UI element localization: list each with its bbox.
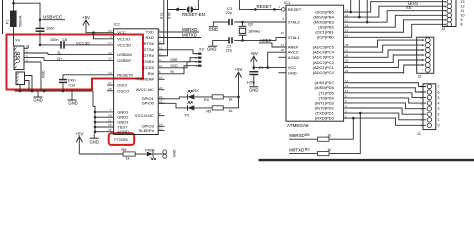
wire IC1 GND stub (279, 72, 287, 74)
wire DTR# up to RESET-EN (158, 0, 167, 56)
svg-text:DCD: DCD (171, 64, 179, 68)
IC1 RESET pin bubble (282, 8, 286, 12)
svg-text:RI#: RI# (148, 71, 155, 76)
svg-text:SLEEP#: SLEEP# (139, 128, 155, 133)
svg-text:C1: C1 (259, 66, 264, 70)
svg-text:X3: X3 (199, 46, 204, 51)
svg-text:19: 19 (108, 71, 112, 75)
schematic frame border left (2, 0, 4, 34)
svg-text:(RXD)PD0: (RXD)PD0 (315, 116, 335, 121)
+5V supply symbol for PWR LED (76, 137, 82, 142)
svg-text:C10: C10 (69, 84, 76, 88)
svg-text:0: 0 (438, 124, 440, 128)
svg-text:7: 7 (438, 85, 440, 89)
svg-text:VCC: VCC (117, 30, 126, 35)
svg-text:AGND: AGND (117, 129, 129, 134)
svg-text:+5V: +5V (235, 67, 243, 72)
net M8RXD from IC2 TXD (158, 31, 199, 33)
X4 pin 3 D+ (24, 57, 44, 59)
svg-text:+5V: +5V (75, 132, 83, 137)
svg-text:+5V: +5V (82, 15, 90, 20)
wire PWR LED to pads (154, 153, 163, 155)
wire ground bus from USB shield down to IC2 ground bus (92, 91, 94, 107)
wire fuse F1 to X4 pin (13, 27, 15, 46)
svg-text:GND: GND (42, 70, 46, 78)
PWR LED emission arrows (151, 157, 153, 159)
svg-text:10: 10 (281, 31, 285, 35)
wire IC1 PB5 to J3 (350, 2, 446, 12)
wire IC2 DSR# to X3 pad2 (165, 58, 199, 62)
svg-text:13: 13 (461, 0, 465, 4)
svg-text:PWR: PWR (145, 147, 154, 152)
svg-text:12: 12 (461, 5, 465, 9)
+5V supply symbol near IC1 (251, 56, 257, 61)
wire IC1 PC2 to J2 (350, 55, 424, 62)
svg-text:RESET-EN: RESET-EN (182, 12, 205, 17)
svg-text:Q2: Q2 (248, 21, 253, 26)
svg-text:M8RXD: M8RXD (289, 133, 304, 138)
wire D- from X4 to IC2 USBDM pin 16 (48, 53, 114, 55)
svg-text:F1: F1 (6, 20, 10, 24)
svg-text:9: 9 (461, 18, 463, 22)
svg-text:XTAL2: XTAL2 (288, 20, 301, 25)
wire XTAL1 from crystal to IC1 (241, 39, 244, 42)
svg-text:DSR: DSR (171, 58, 179, 62)
svg-text:5: 5 (438, 96, 440, 100)
wire R8 to IC1 PD0 (329, 118, 353, 139)
pads after PWR LED (163, 150, 167, 154)
ground symbol under C10 (71, 91, 73, 100)
svg-text:GPIO0: GPIO0 (142, 101, 155, 106)
svg-text:1k: 1k (228, 109, 232, 113)
svg-text:(ADC0)PC0: (ADC0)PC0 (313, 70, 335, 75)
net RESET from top edge (239, 0, 281, 9)
wire X4 GND pin down to ground bus (40, 62, 42, 91)
svg-text:PWREN#: PWREN# (137, 77, 155, 82)
net M8TXD from IC2 RXD (158, 37, 201, 39)
svg-text:TX: TX (184, 113, 189, 118)
svg-text:XTAL1: XTAL1 (288, 35, 301, 40)
wire IC2 DCD# to X3 pad3 (165, 62, 199, 68)
svg-text:R9: R9 (305, 148, 310, 152)
svg-text:CTS#: CTS# (144, 47, 155, 52)
wire riser to IC1 AVCC (268, 52, 286, 67)
wire RESET-EN pad2 to top edge (193, 0, 199, 10)
svg-text:C8: C8 (62, 38, 67, 42)
resistor R8 1k (318, 137, 330, 141)
X4 pin 1 VCC (24, 47, 28, 49)
svg-text:15: 15 (108, 57, 112, 61)
svg-text:16MHz: 16MHz (248, 28, 260, 33)
svg-text:1: 1 (438, 118, 440, 122)
svg-text:R6: R6 (122, 148, 127, 152)
svg-text:GND: GND (207, 47, 216, 52)
svg-text:GND: GND (33, 97, 42, 102)
connector J3 (443, 0, 457, 27)
X4 pin 2 D- (24, 52, 48, 54)
svg-text:R5: R5 (206, 110, 211, 114)
svg-text:M8TXD: M8TXD (182, 33, 197, 38)
svg-text:VCC3I-NC: VCC3I-NC (135, 113, 154, 118)
svg-text:11: 11 (461, 9, 465, 13)
wire IC1 PC4 to J2 (350, 45, 424, 52)
+5V supply symbol for LEDs (235, 72, 241, 77)
wire C3 to GND (213, 22, 229, 26)
svg-text:R4: R4 (204, 98, 209, 102)
LED RX (188, 94, 195, 99)
wire IC2 GPIO1 to RX LED (158, 97, 187, 99)
wire IC1 PB4 to J3 (350, 6, 446, 17)
svg-text:500mA: 500mA (19, 15, 23, 27)
ground symbol under IC2 ground pins (90, 137, 99, 139)
svg-text:GND: GND (209, 27, 218, 32)
svg-text:USBDP: USBDP (117, 58, 131, 63)
wire IC1 PD5 to J1 (350, 93, 426, 98)
wire SCK branch to top edge (350, 0, 352, 12)
svg-text:VCC3O: VCC3O (76, 40, 90, 45)
svg-text:DCD#: DCD# (143, 65, 155, 70)
svg-text:J2: J2 (418, 74, 422, 78)
svg-text:AGND: AGND (288, 55, 300, 60)
resistor R4 1k (194, 96, 212, 98)
wire shield G1 to ground bus (25, 76, 33, 92)
svg-text:AVCC-NC: AVCC-NC (136, 87, 154, 92)
connector J2 (417, 37, 434, 73)
svg-text:DSR#: DSR# (143, 59, 154, 64)
wire IC1 PC3 to J2 (350, 50, 424, 57)
red highlight box around FT232RL value label (109, 133, 135, 145)
wire C2 to GND (213, 40, 230, 45)
svg-text:1k: 1k (126, 156, 130, 160)
wire VCC3O from USBVCC junction to IC2 pin 17 (40, 44, 61, 46)
svg-text:C3: C3 (227, 7, 232, 11)
resistor R5 1k (194, 107, 212, 109)
svg-text:RESET#: RESET# (117, 72, 133, 77)
svg-text:RESET: RESET (288, 7, 302, 12)
X4 pin 4 GND (24, 61, 41, 63)
svg-text:GND: GND (68, 100, 77, 105)
svg-text:1k: 1k (228, 98, 232, 102)
wire IC1 PD0 to J1 (350, 118, 426, 125)
svg-text:3: 3 (438, 107, 440, 111)
wire IC1 PB2 to J3 (350, 15, 446, 27)
resistor R9 1k (318, 152, 330, 156)
wire top to USBVCC label (14, 3, 41, 19)
svg-text:100n: 100n (46, 26, 54, 30)
svg-text:RESET: RESET (257, 4, 272, 9)
ground symbol at C3 (209, 26, 218, 28)
svg-text:100n: 100n (68, 79, 76, 83)
fuse F1 500mA (10, 11, 17, 28)
svg-text:6: 6 (438, 90, 440, 94)
svg-text:18: 18 (281, 48, 285, 52)
svg-text:SS: SS (406, 5, 412, 10)
wire IC1 AGND stub (279, 56, 287, 58)
wire IC2 RI# to X3 pad4 (165, 66, 199, 74)
svg-text:GND: GND (288, 70, 297, 75)
svg-text:8: 8 (461, 23, 463, 27)
wire IC1 PC5 to J2 (350, 40, 424, 47)
svg-text:1k: 1k (327, 134, 331, 138)
wire XTAL2 from IC1 to crystal and C3 (234, 21, 286, 23)
wire IC2 CTS# to X3 pad1 (158, 50, 198, 54)
wire USBVCC from top edge to fuse F1 (13, 0, 15, 11)
wire shield G2 to ground bus (25, 81, 30, 92)
wire +5V to IC2 VCC pin 20 (86, 27, 114, 33)
svg-text:2: 2 (438, 113, 440, 117)
svg-text:J3: J3 (441, 27, 445, 31)
svg-text:VCCIO: VCCIO (117, 36, 130, 41)
wire IC1 PB1 to J3 (350, 20, 446, 32)
wire +5V to IC1 VCC (253, 63, 255, 67)
svg-text:4: 4 (438, 102, 440, 106)
svg-text:GND: GND (90, 139, 99, 144)
wire IC2 RESET# pin 19 to C10 (63, 74, 114, 76)
svg-text:20: 20 (108, 29, 112, 33)
connector J1 (423, 84, 436, 130)
svg-text:+5V: +5V (250, 51, 258, 56)
svg-text:21: 21 (281, 43, 285, 47)
wire IC2 VCCIO pin 4 (93, 33, 113, 39)
wire IC1 PB0 to J3 (350, 24, 446, 37)
wire IC1 PD4 to J1 (350, 98, 426, 103)
svg-text:1k: 1k (327, 148, 331, 152)
capacitor C3 22p (228, 19, 230, 25)
svg-text:RI: RI (171, 70, 174, 74)
wire IC1 PC1 to J2 (350, 60, 424, 68)
svg-text:D+: D+ (58, 57, 64, 61)
svg-text:RX: RX (193, 88, 199, 93)
wire IC1 PD3 to J1 (350, 103, 426, 109)
LED PWR (147, 152, 153, 157)
svg-text:USBVCC: USBVCC (43, 14, 63, 19)
LED TX (188, 105, 195, 110)
svg-text:J1: J1 (417, 132, 421, 136)
wire +5V down to R6 (78, 144, 80, 154)
svg-text:IC1: IC1 (284, 0, 291, 5)
wire RTS# up to top edge (158, 0, 164, 44)
wire IC2 ground pins bus (94, 112, 96, 134)
wire R9 to IC1 PD1 (329, 113, 360, 154)
wire IC1 PD6 to J1 (350, 88, 426, 92)
svg-text:OSCI: OSCI (117, 83, 127, 88)
ground symbol at C2 (208, 45, 217, 47)
wire IC1 PC0 to J2 (350, 65, 424, 73)
svg-text:GND1: GND1 (117, 109, 129, 114)
crystal Q2 16MHz (242, 22, 244, 26)
svg-text:RXD: RXD (145, 35, 154, 40)
svg-text:17: 17 (108, 41, 112, 45)
X4 shield pads G1 G2 (16, 72, 25, 85)
red highlight box around USB interface section (7, 35, 144, 90)
svg-text:22p: 22p (226, 49, 232, 53)
ground symbol under X4 (37, 91, 39, 97)
wire IC1 PB3 to J3 (350, 11, 446, 22)
jumper RESET-EN (168, 9, 187, 11)
svg-text:VCC3O: VCC3O (117, 42, 131, 47)
wire R4 R5 to +5V (238, 77, 240, 108)
wire IC1 PD2 to J1 (350, 108, 426, 114)
svg-text:USBDM: USBDM (117, 52, 131, 57)
svg-text:OSCO: OSCO (117, 88, 129, 93)
svg-text:10: 10 (461, 14, 465, 18)
svg-text:R8: R8 (305, 133, 310, 137)
capacitor C10 100n (62, 75, 64, 79)
svg-text:RTS: RTS (160, 13, 164, 19)
wire IC2 GPIO0 to TX LED (158, 103, 187, 108)
capacitor C2 22p (228, 37, 230, 43)
svg-text:FT232RL: FT232RL (114, 138, 128, 142)
svg-text:X4: X4 (15, 38, 21, 43)
wire shield box to ground bus (19, 85, 21, 92)
svg-text:RTS#: RTS# (144, 41, 155, 46)
svg-text:100n: 100n (50, 38, 58, 42)
svg-text:M8TXD: M8TXD (289, 147, 304, 152)
capacitor 100n on USBVCC (39, 20, 41, 29)
svg-text:(ICP)PB0: (ICP)PB0 (317, 35, 335, 40)
svg-text:22p: 22p (226, 11, 232, 15)
svg-text:16: 16 (108, 51, 112, 55)
wire IC1 PD7 to J1 (350, 83, 426, 87)
svg-text:M8RXD: M8RXD (182, 27, 197, 32)
wire MOSI branch to top edge (366, 0, 368, 22)
capacitor C8 100n (60, 41, 62, 49)
ground symbol at C1 (249, 86, 258, 88)
schematic frame border bottom (259, 159, 474, 161)
svg-text:ATMEGA8: ATMEGA8 (287, 123, 309, 128)
svg-text:GND: GND (173, 149, 177, 157)
svg-text:IC2: IC2 (114, 21, 121, 26)
wire C1 to GND (253, 75, 255, 86)
wire D+ from X4 to IC2 USBDP pin 15 (44, 58, 114, 61)
wire IC1 PD1 to J1 (350, 113, 426, 120)
wire MISO branch to top edge (358, 0, 360, 17)
svg-text:TXD: TXD (146, 29, 154, 34)
+5V supply symbol at IC2 VCC (83, 20, 89, 25)
svg-text:AREF: AREF (260, 38, 272, 43)
svg-text:DTR: DTR (167, 12, 171, 19)
svg-text:GND: GND (249, 87, 258, 92)
resistor R6 1k (123, 152, 135, 156)
svg-text:DTR#: DTR# (143, 53, 154, 58)
wire ground bus under X4 (15, 90, 94, 92)
svg-text:USB: USB (16, 52, 22, 63)
